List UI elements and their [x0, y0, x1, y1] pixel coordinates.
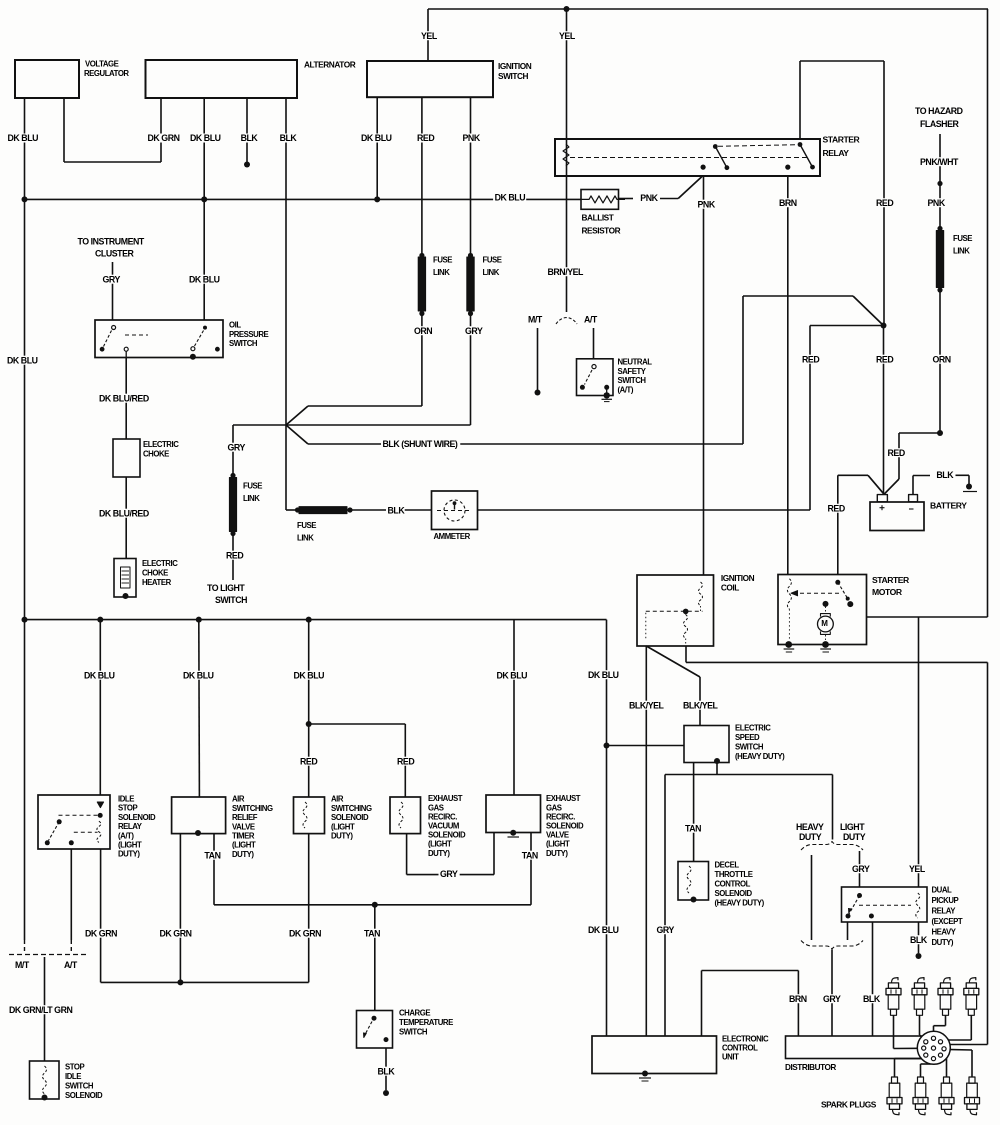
- svg-text:GRY: GRY: [823, 994, 841, 1004]
- svg-text:SWITCHING: SWITCHING: [232, 804, 273, 813]
- svg-text:BRN: BRN: [779, 198, 797, 208]
- svg-text:SWITCH: SWITCH: [215, 595, 247, 605]
- svg-text:PNK: PNK: [640, 193, 658, 203]
- svg-text:A/T: A/T: [584, 314, 598, 324]
- svg-text:SOLENOID: SOLENOID: [118, 813, 156, 822]
- svg-text:BLK: BLK: [863, 994, 881, 1004]
- svg-text:FUSE: FUSE: [243, 482, 262, 491]
- svg-text:TO HAZARD: TO HAZARD: [915, 106, 963, 116]
- svg-text:GRY: GRY: [228, 442, 246, 452]
- svg-text:BLK (SHUNT WIRE): BLK (SHUNT WIRE): [383, 439, 458, 449]
- svg-text:BLK/YEL: BLK/YEL: [683, 700, 719, 710]
- svg-text:FUSE: FUSE: [297, 521, 316, 530]
- svg-text:STOP: STOP: [65, 1063, 85, 1072]
- svg-text:YEL: YEL: [909, 864, 926, 874]
- svg-text:ORN: ORN: [414, 326, 432, 336]
- svg-text:STARTER: STARTER: [872, 575, 910, 585]
- svg-text:FUSE: FUSE: [953, 234, 972, 243]
- svg-text:IGNITION: IGNITION: [498, 61, 532, 71]
- svg-text:TAN: TAN: [204, 850, 220, 860]
- svg-text:BRN: BRN: [789, 994, 807, 1004]
- svg-text:STARTER: STARTER: [823, 134, 861, 144]
- svg-text:DK BLU: DK BLU: [588, 670, 619, 680]
- svg-text:(A/T): (A/T): [118, 831, 134, 840]
- svg-text:DUTY): DUTY): [546, 849, 568, 858]
- svg-text:RECIRC.: RECIRC.: [546, 812, 575, 821]
- svg-text:MOTOR: MOTOR: [872, 587, 903, 597]
- svg-text:SWITCH: SWITCH: [498, 71, 528, 81]
- svg-text:DUTY): DUTY): [118, 850, 140, 859]
- svg-text:DK BLU: DK BLU: [588, 925, 619, 935]
- svg-text:DK GRN: DK GRN: [85, 928, 117, 938]
- svg-text:VACUUM: VACUUM: [428, 822, 459, 831]
- svg-text:UNIT: UNIT: [722, 1052, 739, 1061]
- svg-text:AIR: AIR: [331, 795, 344, 804]
- svg-text:(LIGHT: (LIGHT: [546, 840, 570, 849]
- svg-text:DK BLU: DK BLU: [190, 133, 221, 143]
- svg-text:(LIGHT: (LIGHT: [232, 841, 256, 850]
- svg-text:RED: RED: [888, 448, 905, 458]
- svg-text:PNK/WHT: PNK/WHT: [920, 157, 959, 167]
- svg-text:SOLENOID: SOLENOID: [546, 822, 584, 831]
- svg-text:HEAVY: HEAVY: [796, 822, 824, 832]
- svg-text:AIR: AIR: [232, 795, 245, 804]
- svg-text:M: M: [821, 619, 828, 628]
- svg-text:SWITCH: SWITCH: [65, 1082, 94, 1091]
- svg-text:YEL: YEL: [421, 31, 438, 41]
- svg-text:DK BLU: DK BLU: [183, 670, 214, 680]
- svg-text:CONTROL: CONTROL: [715, 880, 751, 889]
- svg-text:REGULATOR: REGULATOR: [84, 69, 129, 78]
- svg-text:RECIRC.: RECIRC.: [428, 812, 457, 821]
- svg-text:TAN: TAN: [685, 823, 701, 833]
- svg-text:DUTY): DUTY): [331, 832, 353, 841]
- svg-text:DUTY: DUTY: [799, 832, 822, 842]
- svg-text:DK BLU: DK BLU: [84, 670, 115, 680]
- svg-text:CONTROL: CONTROL: [722, 1044, 758, 1053]
- svg-text:BLK: BLK: [241, 133, 259, 143]
- svg-text:SPARK PLUGS: SPARK PLUGS: [821, 1100, 877, 1110]
- svg-text:GRY: GRY: [440, 869, 458, 879]
- svg-text:BATTERY: BATTERY: [930, 500, 967, 510]
- svg-text:VALVE: VALVE: [232, 822, 255, 831]
- svg-text:DK GRN: DK GRN: [160, 928, 192, 938]
- svg-text:DUTY): DUTY): [428, 849, 450, 858]
- svg-text:ELECTRIC: ELECTRIC: [143, 440, 179, 449]
- svg-text:DUTY): DUTY): [932, 938, 954, 947]
- svg-text:BLK: BLK: [378, 1066, 396, 1076]
- svg-text:VOLTAGE: VOLTAGE: [85, 60, 119, 69]
- svg-text:RED: RED: [397, 756, 414, 766]
- svg-text:DK BLU: DK BLU: [361, 133, 392, 143]
- svg-text:A/T: A/T: [64, 960, 78, 970]
- svg-text:GRY: GRY: [103, 274, 121, 284]
- svg-text:GAS: GAS: [546, 803, 562, 812]
- svg-text:STOP: STOP: [118, 804, 138, 813]
- svg-text:TO INSTRUMENT: TO INSTRUMENT: [78, 236, 145, 246]
- svg-text:DECEL: DECEL: [715, 861, 740, 870]
- svg-text:SOLENOID: SOLENOID: [331, 813, 369, 822]
- svg-text:FUSE: FUSE: [433, 256, 452, 265]
- svg-text:SWITCH: SWITCH: [399, 1028, 428, 1037]
- svg-text:RELAY: RELAY: [118, 822, 143, 831]
- svg-text:DK BLU: DK BLU: [8, 133, 39, 143]
- svg-text:CHARGE: CHARGE: [399, 1009, 430, 1018]
- svg-text:EXHAUST: EXHAUST: [428, 794, 463, 803]
- svg-text:TEMPERATURE: TEMPERATURE: [399, 1018, 453, 1027]
- svg-text:ELECTRIC: ELECTRIC: [142, 559, 178, 568]
- svg-text:PRESSURE: PRESSURE: [229, 330, 269, 339]
- svg-text:RED: RED: [876, 198, 893, 208]
- svg-text:RED: RED: [300, 756, 317, 766]
- svg-text:GRY: GRY: [852, 864, 870, 874]
- svg-text:(LIGHT: (LIGHT: [331, 822, 355, 831]
- svg-text:BLK/YEL: BLK/YEL: [629, 700, 665, 710]
- svg-text:DK GRN/LT GRN: DK GRN/LT GRN: [9, 1005, 72, 1015]
- svg-text:BLK: BLK: [910, 935, 928, 945]
- svg-text:FUSE: FUSE: [483, 256, 502, 265]
- svg-text:ORN: ORN: [933, 354, 951, 364]
- svg-text:(HEAVY DUTY): (HEAVY DUTY): [715, 899, 765, 908]
- svg-text:LINK: LINK: [433, 268, 450, 277]
- svg-text:PICKUP: PICKUP: [932, 896, 959, 905]
- svg-text:IGNITION: IGNITION: [721, 573, 755, 583]
- svg-text:CHOKE: CHOKE: [142, 569, 168, 578]
- svg-text:DK BLU/RED: DK BLU/RED: [99, 508, 149, 518]
- svg-text:SAFETY: SAFETY: [618, 367, 647, 376]
- svg-text:DK GRN: DK GRN: [289, 928, 321, 938]
- svg-text:OIL: OIL: [229, 321, 241, 330]
- svg-text:SWITCHING: SWITCHING: [331, 804, 372, 813]
- svg-text:GRY: GRY: [657, 925, 675, 935]
- svg-text:GRY: GRY: [465, 326, 483, 336]
- svg-text:LINK: LINK: [297, 534, 314, 543]
- svg-text:THROTTLE: THROTTLE: [715, 870, 753, 879]
- svg-text:M/T: M/T: [528, 314, 543, 324]
- svg-text:BALLIST: BALLIST: [582, 213, 614, 223]
- svg-text:BLK: BLK: [936, 470, 954, 480]
- svg-text:HEATER: HEATER: [142, 578, 172, 587]
- svg-text:GAS: GAS: [428, 803, 444, 812]
- svg-text:BRN/YEL: BRN/YEL: [548, 267, 585, 277]
- svg-text:RED: RED: [802, 354, 819, 364]
- svg-text:SWITCH: SWITCH: [735, 743, 764, 752]
- svg-text:(A/T): (A/T): [618, 385, 634, 394]
- svg-text:RELAY: RELAY: [823, 148, 850, 158]
- svg-text:NEUTRAL: NEUTRAL: [618, 358, 653, 367]
- svg-text:LINK: LINK: [243, 494, 260, 503]
- svg-text:CHOKE: CHOKE: [143, 449, 169, 458]
- svg-text:RED: RED: [876, 354, 893, 364]
- svg-text:SOLENOID: SOLENOID: [65, 1091, 103, 1100]
- svg-text:(EXCEPT: (EXCEPT: [932, 917, 963, 926]
- svg-text:DUTY: DUTY: [843, 832, 866, 842]
- svg-text:LINK: LINK: [953, 247, 970, 256]
- svg-text:ELECTRONIC: ELECTRONIC: [722, 1035, 769, 1044]
- svg-text:LIGHT: LIGHT: [840, 822, 865, 832]
- svg-text:TAN: TAN: [364, 928, 380, 938]
- svg-text:DK BLU: DK BLU: [189, 274, 220, 284]
- svg-text:TIMER: TIMER: [232, 832, 255, 841]
- svg-text:(LIGHT: (LIGHT: [428, 840, 452, 849]
- svg-text:RED: RED: [828, 503, 845, 513]
- svg-text:SWITCH: SWITCH: [618, 376, 647, 385]
- svg-text:DK BLU: DK BLU: [7, 355, 38, 365]
- svg-text:DUAL: DUAL: [932, 886, 953, 895]
- svg-text:ELECTRIC: ELECTRIC: [735, 724, 771, 733]
- svg-text:COIL: COIL: [721, 583, 739, 593]
- svg-text:VALVE: VALVE: [546, 831, 569, 840]
- svg-text:TAN: TAN: [522, 850, 538, 860]
- svg-text:RESISTOR: RESISTOR: [582, 226, 621, 236]
- svg-text:(HEAVY DUTY): (HEAVY DUTY): [735, 752, 785, 761]
- svg-text:RELAY: RELAY: [932, 907, 957, 916]
- svg-text:(LIGHT: (LIGHT: [118, 841, 142, 850]
- svg-text:CLUSTER: CLUSTER: [95, 248, 134, 258]
- svg-text:AMMETER: AMMETER: [434, 532, 471, 541]
- svg-text:SWITCH: SWITCH: [229, 339, 258, 348]
- svg-text:HEAVY: HEAVY: [932, 928, 957, 937]
- svg-text:IDLE: IDLE: [118, 795, 134, 804]
- svg-text:SOLENOID: SOLENOID: [428, 831, 466, 840]
- svg-text:DK BLU: DK BLU: [497, 670, 528, 680]
- svg-text:DISTRIBUTOR: DISTRIBUTOR: [785, 1063, 836, 1072]
- svg-text:LINK: LINK: [483, 268, 500, 277]
- svg-text:PNK: PNK: [928, 198, 946, 208]
- svg-text:YEL: YEL: [559, 31, 576, 41]
- svg-text:RED: RED: [417, 133, 434, 143]
- svg-text:DUTY): DUTY): [232, 850, 254, 859]
- svg-text:ALTERNATOR: ALTERNATOR: [304, 60, 356, 70]
- svg-text:DK BLU: DK BLU: [294, 670, 325, 680]
- svg-text:SOLENOID: SOLENOID: [715, 889, 753, 898]
- svg-text:DK BLU/RED: DK BLU/RED: [99, 393, 149, 403]
- svg-text:BLK: BLK: [280, 133, 298, 143]
- svg-text:EXHAUST: EXHAUST: [546, 794, 581, 803]
- svg-text:RED: RED: [226, 550, 243, 560]
- svg-text:PNK: PNK: [698, 199, 716, 209]
- svg-text:BLK: BLK: [388, 505, 406, 515]
- svg-text:SPEED: SPEED: [735, 733, 760, 742]
- svg-text:FLASHER: FLASHER: [920, 119, 959, 129]
- svg-text:DK GRN: DK GRN: [148, 133, 180, 143]
- svg-text:RELIEF: RELIEF: [232, 813, 258, 822]
- svg-text:PNK: PNK: [463, 133, 481, 143]
- svg-text:IDLE: IDLE: [65, 1072, 81, 1081]
- svg-text:DK BLU: DK BLU: [495, 192, 526, 202]
- svg-text:TO LIGHT: TO LIGHT: [207, 583, 245, 593]
- svg-text:M/T: M/T: [15, 960, 30, 970]
